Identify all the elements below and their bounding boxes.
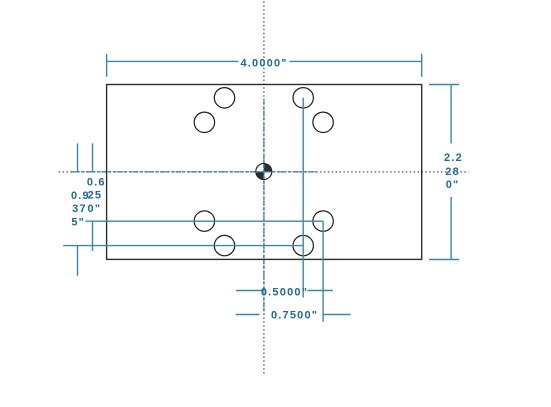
hole top-left A (x -0.5, y -0.9375) xyxy=(214,88,234,108)
svg-text:0.7500": 0.7500" xyxy=(271,310,318,322)
origin center mark (quadrant symbol) xyxy=(256,164,272,180)
annotation centerline vertical (blue dashed) xyxy=(263,101,265,313)
hole bottom-left F (x -0.5, y +0.9375) xyxy=(214,235,234,255)
svg-text:4.0000": 4.0000" xyxy=(240,58,287,70)
dimension 2.2280 top extension tick xyxy=(429,84,459,86)
hole top-left B (x -0.75, y -0.625) xyxy=(194,112,214,132)
dimension 0.6250 line xyxy=(92,143,94,251)
svg-text:0.9: 0.9 xyxy=(71,190,90,202)
svg-text:37: 37 xyxy=(72,203,87,215)
extension line column x+0.75 xyxy=(322,221,324,322)
construction centerline horizontal (grey dotted) xyxy=(59,171,469,173)
dimension 4.0000 line xyxy=(107,60,422,62)
dimension 2.2280 text xyxy=(444,152,463,191)
dimension 4.0000 left extension tick xyxy=(106,54,108,77)
dimension 0.6250 text xyxy=(87,177,106,215)
dimension 0.9375 text xyxy=(71,190,90,228)
svg-text:0.6: 0.6 xyxy=(87,177,106,189)
dimension 0.5000 line xyxy=(236,290,333,292)
extension line row y+0.9375 xyxy=(63,245,303,247)
dimension 0.7500 line xyxy=(236,314,351,316)
plate outline xyxy=(107,85,422,260)
extension line column x+0.5 xyxy=(302,98,304,298)
svg-text:5": 5" xyxy=(71,216,85,228)
annotation centerline horizontal (blue dashed) xyxy=(71,171,317,173)
hole top-right C (x +0.5, y -0.9375) xyxy=(293,88,313,108)
dimension 2.2280 bottom extension tick xyxy=(429,259,459,261)
extension line row y+0.625 xyxy=(85,220,323,222)
svg-text:0": 0" xyxy=(446,179,460,191)
svg-text:0.5000": 0.5000" xyxy=(261,287,308,299)
hole top-right D (x +0.75, y -0.625) xyxy=(313,112,333,132)
dimension 4.0000 right extension tick xyxy=(421,54,423,77)
construction centerline vertical (grey dotted) xyxy=(263,2,265,377)
dimension 2.2280 line xyxy=(450,85,452,260)
hole bottom-left E (x -0.75, y +0.625) xyxy=(194,211,214,231)
hole bottom-right H (x +0.75, y +0.625) xyxy=(313,211,333,231)
dimension 0.9375 line xyxy=(77,143,79,275)
svg-text:28: 28 xyxy=(445,166,460,178)
svg-text:0": 0" xyxy=(88,203,102,215)
hole bottom-right G (x +0.5, y +0.9375) xyxy=(293,235,313,255)
svg-text:2.2: 2.2 xyxy=(444,152,463,164)
